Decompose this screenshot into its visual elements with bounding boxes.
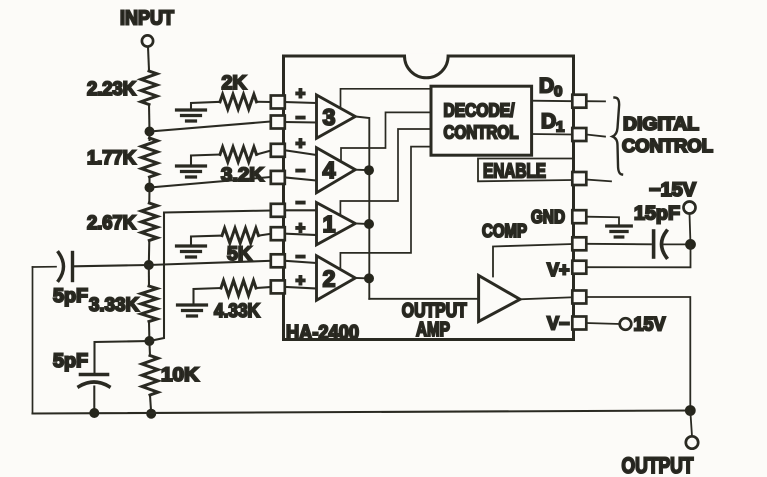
pin COMP (right) bbox=[572, 237, 586, 250]
svg-text:4: 4 bbox=[323, 157, 336, 183]
svg-text:15V: 15V bbox=[634, 315, 666, 336]
wire select amp4 bbox=[341, 112, 431, 161]
wire decode to pin D0 bbox=[532, 100, 573, 103]
svg-text:−: − bbox=[296, 162, 306, 180]
wire C1 to node C bbox=[74, 265, 149, 266]
wire bottom feedback rail bbox=[33, 411, 691, 414]
op-amp channel 3 bbox=[317, 95, 356, 138]
terminal -15V bbox=[684, 202, 696, 214]
svg-text:1.77K: 1.77K bbox=[87, 147, 136, 169]
ground at R8 bbox=[177, 246, 206, 257]
svg-text:D: D bbox=[541, 110, 556, 133]
node bus-amp1 junction bbox=[364, 219, 374, 229]
pin Vplus (right) bbox=[572, 261, 586, 274]
resistor R5 10K bbox=[148, 341, 151, 356]
wire amp2 output bbox=[355, 277, 369, 279]
terminal OUTPUT bbox=[686, 436, 698, 448]
pin 3plus (left) bbox=[271, 96, 285, 109]
wire amp3 output to bus bbox=[355, 117, 369, 299]
node bus-amp2 junction bbox=[364, 273, 374, 283]
wire pin stubs to amp 4 bbox=[285, 150, 317, 180]
node bus-amp4 junction bbox=[364, 165, 374, 175]
wire C3 to node bbox=[664, 243, 691, 245]
wire R9 to ground bbox=[194, 288, 222, 305]
svg-text:+: + bbox=[296, 220, 306, 238]
svg-text:CONTROL: CONTROL bbox=[444, 123, 519, 143]
wire R6 to ground bbox=[191, 102, 220, 110]
resistor R3 2.67K bbox=[148, 188, 150, 204]
svg-text:+: + bbox=[296, 135, 306, 153]
wire R2 to node B bbox=[148, 177, 150, 188]
op-amp channel 2 bbox=[317, 256, 356, 301]
block DECODE/CONTROL bbox=[431, 86, 532, 155]
wire V- pin to 15V terminal bbox=[586, 323, 619, 324]
wire pin stubs to amp 3 bbox=[285, 102, 317, 123]
pin 3minus (left) bbox=[271, 116, 285, 129]
node bottom-of-ladder junction bbox=[146, 409, 156, 419]
svg-text:HA-2400: HA-2400 bbox=[286, 322, 359, 344]
resistor R2 1.77K bbox=[148, 132, 150, 141]
resistor R7 3.2K bbox=[220, 147, 257, 162]
wire R8 to pin 1plus bbox=[259, 234, 272, 236]
pin 2plus (left) bbox=[271, 280, 285, 293]
svg-text:−: − bbox=[296, 109, 306, 127]
resistor R8 5K bbox=[222, 228, 259, 243]
terminal 15V bbox=[620, 318, 632, 330]
node comp junction bbox=[685, 239, 696, 250]
svg-text:2: 2 bbox=[323, 266, 336, 292]
wire R5 to bottom node bbox=[150, 395, 151, 414]
wire node C to pin 2minus bbox=[149, 261, 271, 265]
svg-text:+: + bbox=[296, 85, 306, 103]
svg-text:D: D bbox=[539, 75, 554, 98]
wire comp bbox=[493, 244, 572, 277]
svg-text:3.2K: 3.2K bbox=[221, 164, 264, 186]
ground at R6 bbox=[177, 110, 206, 121]
node C junction bbox=[144, 260, 154, 270]
pin OUT (right) bbox=[572, 291, 586, 304]
wire OUT pin to output node bbox=[586, 297, 690, 411]
wire bus to output amp bbox=[369, 298, 478, 300]
wire select amp1 bbox=[340, 129, 431, 215]
wire node to V+ pin bbox=[586, 244, 690, 267]
svg-text:1: 1 bbox=[556, 119, 564, 136]
svg-text:COMP: COMP bbox=[482, 221, 527, 241]
package notch bbox=[404, 54, 449, 59]
wire D0 out bbox=[586, 100, 605, 102]
svg-text:−: − bbox=[296, 248, 306, 266]
wire output amp to pin bbox=[520, 297, 572, 299]
wire R1 to node A bbox=[148, 105, 151, 132]
svg-text:V−: V− bbox=[547, 314, 570, 334]
resistor R1 2.23K bbox=[141, 71, 157, 105]
capacitor C3 15pF bbox=[652, 231, 656, 257]
svg-text:V+: V+ bbox=[547, 260, 570, 280]
wire D1 out bbox=[586, 135, 605, 137]
svg-text:1: 1 bbox=[323, 211, 336, 237]
wire ENABLE routing box bbox=[478, 159, 574, 182]
wire to OUTPUT terminal bbox=[690, 411, 692, 437]
wire ENABLE out bbox=[586, 180, 611, 182]
svg-text:5pF: 5pF bbox=[53, 350, 88, 372]
pin 2minus (left) bbox=[271, 254, 285, 267]
ground at R7 bbox=[177, 166, 206, 177]
svg-text:−15V: −15V bbox=[649, 180, 696, 201]
pin 4minus (left) bbox=[271, 171, 285, 184]
svg-text:15pF: 15pF bbox=[634, 204, 680, 225]
svg-text:ENABLE: ENABLE bbox=[483, 160, 546, 183]
svg-text:4.33K: 4.33K bbox=[214, 300, 260, 322]
wire node B to pin 4minus bbox=[150, 177, 272, 188]
wire R7 to ground bbox=[191, 155, 220, 166]
pin 4plus (left) bbox=[271, 144, 285, 157]
wire amp1 output bbox=[355, 223, 369, 226]
wire decode to pin D1 bbox=[532, 133, 573, 136]
wire R7 to pin 4plus bbox=[257, 151, 272, 155]
wire pin stubs to amp 1 bbox=[285, 210, 317, 235]
pin ENABLE (right) bbox=[572, 172, 586, 185]
wire COMP pin to C3 bbox=[586, 243, 651, 246]
svg-text:2.67K: 2.67K bbox=[87, 212, 136, 234]
svg-text:AMP: AMP bbox=[416, 319, 450, 341]
node B junction bbox=[145, 183, 155, 193]
svg-text:+: + bbox=[296, 272, 306, 290]
svg-text:5K: 5K bbox=[227, 243, 252, 265]
op-amp output amplifier bbox=[479, 276, 520, 322]
svg-text:10K: 10K bbox=[161, 364, 199, 386]
node D junction bbox=[144, 336, 154, 346]
wire pin stubs to amp 2 bbox=[285, 261, 317, 289]
wire select amp2 bbox=[340, 147, 431, 268]
wire R3 to node C bbox=[148, 241, 151, 266]
pin GND (right) bbox=[572, 210, 586, 223]
svg-text:DIGITAL: DIGITAL bbox=[623, 114, 699, 134]
wire node A to pin 3minus bbox=[150, 122, 272, 132]
ground at R9 bbox=[178, 305, 207, 316]
op-amp U1 HA-2400 package body bbox=[284, 56, 574, 340]
svg-text:3: 3 bbox=[323, 104, 336, 130]
svg-text:3.33K: 3.33K bbox=[89, 294, 139, 316]
svg-text:CONTROL: CONTROL bbox=[622, 136, 713, 156]
wire amp4 output bbox=[355, 169, 369, 172]
pin Vminus (right) bbox=[572, 317, 586, 330]
svg-text:DECODE/: DECODE/ bbox=[444, 101, 515, 121]
wire node D riser to pin 1minus bbox=[149, 211, 271, 342]
resistor R4 3.33K bbox=[148, 265, 150, 286]
wire R8 to ground bbox=[191, 236, 222, 246]
svg-text:5pF: 5pF bbox=[53, 285, 88, 307]
wire left to C1 bbox=[33, 266, 57, 268]
pin 1plus (left) bbox=[271, 227, 285, 240]
ground at GND pin bbox=[607, 226, 632, 237]
capacitor C2 5pF (shunt) bbox=[81, 373, 108, 377]
svg-text:0: 0 bbox=[554, 83, 562, 100]
resistor R9 4.33K bbox=[221, 281, 256, 296]
svg-text:GND: GND bbox=[531, 207, 565, 227]
wire select amp3 bbox=[341, 89, 432, 108]
wire left loop vertical bbox=[32, 267, 34, 414]
svg-text:2K: 2K bbox=[222, 72, 247, 94]
wire C2 top to node D bbox=[95, 341, 150, 375]
wire input to R1 bbox=[148, 47, 149, 70]
svg-text:INPUT: INPUT bbox=[120, 8, 174, 30]
pin D1 (right) bbox=[572, 128, 586, 141]
node C2-rail junction bbox=[89, 408, 99, 418]
op-amp channel 1 bbox=[317, 203, 356, 245]
capacitor C1 5pF (series feedback) bbox=[59, 253, 64, 281]
svg-text:OUTPUT: OUTPUT bbox=[622, 453, 694, 477]
resistor R6 2K bbox=[220, 94, 257, 109]
pin 1minus (left) bbox=[271, 204, 285, 217]
op-amp channel 4 bbox=[317, 148, 356, 193]
wire -15V to node bbox=[690, 214, 691, 245]
node output junction bbox=[685, 405, 696, 416]
svg-text:2.23K: 2.23K bbox=[87, 78, 136, 100]
wire R9 to pin 2plus bbox=[256, 287, 271, 288]
wire C2 bottom to rail bbox=[93, 387, 95, 413]
wire R6 to pin 3plus bbox=[257, 101, 272, 103]
terminal INPUT bbox=[142, 35, 153, 46]
pin D0 (right) bbox=[572, 95, 586, 108]
wire GND pin to ground bbox=[586, 217, 619, 226]
svg-text:−: − bbox=[296, 194, 306, 212]
node A junction bbox=[145, 127, 155, 137]
brace digital control bbox=[613, 98, 623, 175]
wire R4 to node D bbox=[148, 322, 150, 342]
